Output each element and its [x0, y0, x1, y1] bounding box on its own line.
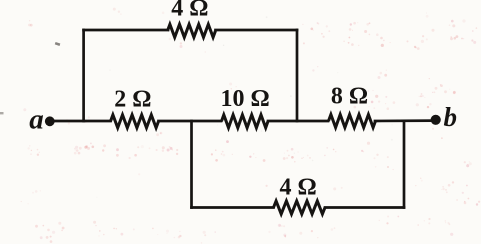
wire: bottom branch left vertical [190, 121, 193, 208]
wire: 8-ohm to node b [375, 119, 433, 122]
wire: top branch right vertical [296, 30, 299, 121]
wire: bottom branch horizontal left [192, 206, 274, 209]
svg-text:4 Ω: 4 Ω [171, 0, 208, 22]
svg-text:a: a [29, 104, 44, 136]
svg-text:10 Ω: 10 Ω [220, 86, 269, 112]
svg-text:b: b [444, 102, 458, 132]
stray scan mark left edge [0, 112, 4, 114]
terminal dot a [45, 116, 55, 126]
svg-text:4 Ω: 4 Ω [279, 174, 316, 200]
wire: bottom branch horizontal right [325, 206, 404, 209]
resistor 2-ohm zigzag [111, 115, 159, 128]
wire: node a to 2-ohm resistor [52, 120, 111, 123]
resistor 4-ohm (bottom branch) zigzag [274, 201, 326, 214]
resistor 4-ohm (top branch) zigzag [168, 24, 216, 37]
terminal dot b [431, 115, 441, 125]
svg-text:2 Ω: 2 Ω [114, 86, 151, 112]
wire: top branch horizontal right [216, 29, 298, 32]
wire: top branch horizontal left [84, 29, 168, 32]
wire: 2-ohm to 10-ohm (junction node) [159, 120, 222, 123]
svg-text:8 Ω: 8 Ω [331, 84, 368, 110]
stray scan mark top-left [55, 42, 61, 46]
wire: top branch left vertical [82, 30, 85, 121]
wire: bottom branch right vertical [403, 121, 406, 208]
resistor 8-ohm zigzag [329, 115, 376, 128]
wire: 10-ohm to 8-ohm (junction node) [268, 120, 328, 123]
resistor 10-ohm zigzag [222, 115, 269, 128]
